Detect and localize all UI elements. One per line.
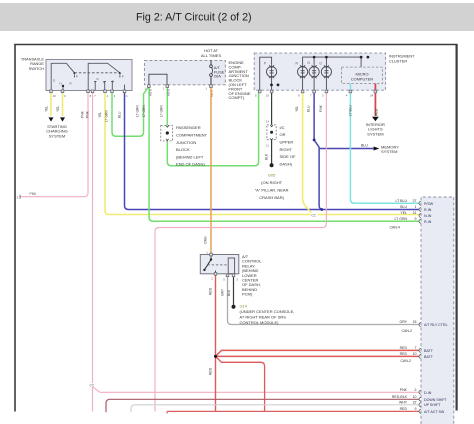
svg-text:AT RIGHT REAR OF SRS: AT RIGHT REAR OF SRS bbox=[240, 314, 287, 319]
svg-text:SYSTEM: SYSTEM bbox=[49, 133, 65, 138]
svg-text:11: 11 bbox=[266, 144, 269, 148]
svg-text:RED: RED bbox=[375, 108, 379, 116]
svg-text:CRASH BAR): CRASH BAR) bbox=[259, 195, 284, 200]
svg-text:UPPER: UPPER bbox=[280, 140, 294, 145]
svg-text:COMPUTER: COMPUTER bbox=[351, 76, 373, 81]
svg-text:ORG: ORG bbox=[204, 236, 208, 244]
svg-text:RED: RED bbox=[208, 367, 212, 375]
svg-text:I/C: I/C bbox=[280, 125, 285, 130]
svg-text:COMPARTMENT: COMPARTMENT bbox=[176, 133, 208, 138]
svg-text:10: 10 bbox=[413, 352, 417, 356]
svg-text:20A: 20A bbox=[214, 74, 221, 79]
svg-text:LT GRN: LT GRN bbox=[105, 110, 109, 122]
svg-text:PCM): PCM) bbox=[242, 292, 253, 297]
svg-text:BLU: BLU bbox=[361, 143, 368, 147]
svg-text:UP SHIFT: UP SHIFT bbox=[424, 403, 441, 407]
svg-text:GRY: GRY bbox=[221, 288, 225, 296]
svg-text:YEL: YEL bbox=[400, 211, 407, 215]
svg-text:DOWN SHIFT: DOWN SHIFT bbox=[424, 398, 448, 402]
svg-text:(UNDER CENTER CONSOLE,: (UNDER CENTER CONSOLE, bbox=[240, 309, 295, 314]
svg-text:BLU: BLU bbox=[400, 205, 407, 209]
svg-text:27: 27 bbox=[413, 199, 417, 203]
svg-text:CAN-2: CAN-2 bbox=[400, 359, 411, 363]
svg-text:22: 22 bbox=[413, 401, 417, 405]
svg-text:RED: RED bbox=[400, 352, 408, 356]
svg-text:YEL: YEL bbox=[44, 106, 48, 112]
svg-text:RED: RED bbox=[208, 287, 212, 295]
svg-text:ALL TIMES: ALL TIMES bbox=[201, 53, 222, 58]
svg-text:9: 9 bbox=[415, 407, 417, 411]
svg-text:CAN-4: CAN-4 bbox=[389, 225, 400, 229]
svg-text:SYSTEM: SYSTEM bbox=[367, 131, 383, 136]
svg-text:YEL: YEL bbox=[295, 106, 299, 112]
svg-text:GRY: GRY bbox=[399, 320, 407, 324]
svg-text:1: 1 bbox=[415, 205, 417, 209]
svg-text:OR: OR bbox=[280, 132, 286, 137]
svg-text:BATT: BATT bbox=[424, 349, 434, 353]
svg-text:A/2-R: A/2-R bbox=[210, 90, 214, 97]
svg-text:P: P bbox=[122, 75, 124, 79]
svg-text:R-IN: R-IN bbox=[424, 208, 432, 212]
svg-text:LT GRN: LT GRN bbox=[136, 105, 140, 117]
svg-text:RED: RED bbox=[400, 407, 408, 411]
svg-text:CAN-2: CAN-2 bbox=[401, 329, 412, 333]
svg-text:PNK: PNK bbox=[400, 388, 408, 392]
svg-text:D-IN: D-IN bbox=[424, 391, 432, 395]
svg-text:P: P bbox=[76, 75, 78, 79]
svg-text:RED-BLK: RED-BLK bbox=[392, 395, 408, 399]
svg-text:SIDE OF: SIDE OF bbox=[280, 154, 297, 159]
svg-text:R-IN: R-IN bbox=[424, 220, 432, 224]
svg-text:10: 10 bbox=[53, 94, 57, 98]
svg-text:"A" PILLAR, NEAR: "A" PILLAR, NEAR bbox=[255, 187, 289, 192]
svg-text:CC: CC bbox=[90, 384, 95, 388]
svg-text:A/T ACT SW: A/T ACT SW bbox=[424, 410, 445, 414]
svg-text:DASH): DASH) bbox=[280, 161, 293, 166]
svg-text:A/2-B: A/2-B bbox=[148, 89, 152, 96]
svg-text:LT GRN: LT GRN bbox=[394, 217, 407, 221]
svg-text:N: N bbox=[103, 81, 105, 85]
svg-text:2: 2 bbox=[415, 388, 417, 392]
svg-text:SWITCH: SWITCH bbox=[29, 66, 45, 71]
svg-text:WHT: WHT bbox=[399, 401, 408, 405]
svg-text:15: 15 bbox=[413, 320, 417, 324]
svg-text:PNK: PNK bbox=[319, 104, 323, 112]
svg-text:10: 10 bbox=[413, 395, 417, 399]
svg-text:BLU: BLU bbox=[307, 105, 311, 112]
svg-text:(ON RIGHT: (ON RIGHT bbox=[261, 180, 282, 185]
svg-text:CC: CC bbox=[311, 213, 316, 217]
svg-text:RIGHT: RIGHT bbox=[280, 147, 293, 152]
svg-text:BLOCK: BLOCK bbox=[176, 147, 190, 152]
svg-text:A/2-B: A/2-B bbox=[167, 89, 171, 96]
svg-text:JUNCTION: JUNCTION bbox=[176, 140, 196, 145]
svg-text:CONTROL MODULE): CONTROL MODULE) bbox=[240, 320, 280, 325]
svg-text:(BEHIND LEFT: (BEHIND LEFT bbox=[176, 154, 204, 159]
svg-text:9: 9 bbox=[415, 217, 417, 221]
svg-text:G14: G14 bbox=[240, 304, 248, 309]
svg-text:END OF DASH): END OF DASH) bbox=[176, 162, 205, 167]
svg-text:G05: G05 bbox=[268, 172, 276, 177]
svg-text:SYSTEM: SYSTEM bbox=[381, 149, 397, 154]
svg-text:LT GRN: LT GRN bbox=[142, 105, 146, 117]
svg-text:24: 24 bbox=[370, 94, 374, 98]
svg-text:7: 7 bbox=[415, 346, 417, 350]
svg-text:21: 21 bbox=[413, 211, 417, 215]
svg-text:LT GRN: LT GRN bbox=[159, 105, 163, 117]
svg-text:LT BLU: LT BLU bbox=[395, 199, 407, 203]
svg-text:N: N bbox=[60, 81, 62, 85]
svg-text:PNK: PNK bbox=[85, 110, 89, 118]
svg-text:16: 16 bbox=[266, 94, 270, 98]
svg-text:CLUSTER: CLUSTER bbox=[389, 58, 407, 63]
svg-text:PASSENGER: PASSENGER bbox=[176, 125, 201, 130]
svg-text:Fig 2: A/T Circuit (2 of 2): Fig 2: A/T Circuit (2 of 2) bbox=[136, 11, 252, 23]
svg-text:YEL: YEL bbox=[56, 106, 60, 112]
svg-text:RED: RED bbox=[400, 346, 408, 350]
svg-text:PNK: PNK bbox=[81, 110, 85, 118]
svg-text:BLK: BLK bbox=[265, 153, 269, 160]
svg-text:BLK: BLK bbox=[227, 289, 231, 296]
svg-text:P: P bbox=[264, 62, 266, 66]
svg-text:BATT: BATT bbox=[424, 355, 434, 359]
svg-text:BLU: BLU bbox=[118, 111, 122, 118]
svg-text:P/SW: P/SW bbox=[424, 202, 434, 206]
svg-text:14: 14 bbox=[266, 119, 270, 123]
svg-text:YEL: YEL bbox=[98, 112, 102, 118]
svg-text:PNK: PNK bbox=[30, 192, 38, 196]
svg-text:A/T RLY CTRL: A/T RLY CTRL bbox=[424, 323, 448, 327]
svg-text:LT BLU: LT BLU bbox=[349, 105, 353, 116]
svg-text:1: 1 bbox=[17, 195, 19, 199]
svg-text:N-IN: N-IN bbox=[424, 214, 432, 218]
svg-text:COMPT): COMPT) bbox=[229, 95, 245, 100]
